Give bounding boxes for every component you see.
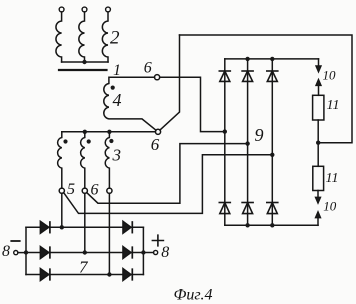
wire top rail net A xyxy=(180,35,353,143)
transformer T2 winding C with terminal xyxy=(102,7,110,62)
svg-text:6: 6 xyxy=(144,60,152,77)
junction rail 1 phase xyxy=(60,225,64,229)
svg-text:9: 9 xyxy=(255,125,264,145)
diode VD5 bottom col2 xyxy=(242,203,253,214)
svg-text:10: 10 xyxy=(323,199,337,214)
diode VD6 bottom col3 xyxy=(267,203,278,214)
diode VD4 bottom col1 xyxy=(219,203,230,214)
diode VD1 top col1 xyxy=(219,71,230,81)
diode VD11 rail2 right xyxy=(123,246,132,258)
svg-text:1: 1 xyxy=(113,62,121,79)
diode VD7 rail1 left xyxy=(40,221,50,233)
svg-text:2: 2 xyxy=(110,28,120,49)
wire T2 star rail xyxy=(62,61,108,63)
svg-text:8: 8 xyxy=(161,244,169,261)
junction top rail col3 xyxy=(270,57,274,61)
junction column 2 phase tap xyxy=(245,141,249,145)
junction left bus xyxy=(24,250,28,254)
wire column 3 xyxy=(271,59,273,225)
transformer T2 winding A with terminal xyxy=(56,7,64,62)
wire column 2 xyxy=(247,59,249,225)
svg-text:6: 6 xyxy=(151,135,160,154)
diode VD10 rail1 right xyxy=(123,221,132,233)
junction right bus xyxy=(141,250,145,254)
bridge 9 top rail xyxy=(225,58,319,60)
transformer T3 winding b xyxy=(81,132,85,188)
terminal minus with wire xyxy=(11,241,26,255)
polarity dot T3 a xyxy=(63,139,67,143)
terminal 6 lower xyxy=(155,129,160,134)
junction column 1 phase tap xyxy=(223,129,227,133)
svg-text:3: 3 xyxy=(112,146,122,165)
polarity dot T3 c xyxy=(109,139,113,143)
spark gap 10 upper xyxy=(316,59,322,95)
bridge 7 rail 3 xyxy=(26,274,143,276)
wire terminal c drop to bridge 7 rail 3 xyxy=(108,193,110,274)
transformer T3 winding c xyxy=(105,132,109,188)
svg-text:10: 10 xyxy=(323,67,337,82)
bridge 7 left bus xyxy=(25,227,27,274)
junction top rail col2 xyxy=(245,57,249,61)
svg-text:7: 7 xyxy=(79,257,89,276)
terminal 6 of T3 xyxy=(82,188,87,193)
junction T3 rail b xyxy=(83,130,87,134)
transformer core of T1 xyxy=(59,69,107,71)
transformer T2 winding B with terminal xyxy=(79,7,87,62)
resistor 11 upper xyxy=(313,95,324,120)
wire terminal 6 drop to bridge 7 rail 2 xyxy=(84,193,86,252)
bridge 7 rail 2 xyxy=(26,252,143,254)
terminal 5 xyxy=(59,188,64,193)
wire column 1 xyxy=(224,59,226,225)
junction bottom rail col2 xyxy=(245,223,249,227)
terminal 6 upper xyxy=(155,75,160,80)
bridge 7 rail 1 xyxy=(26,226,143,228)
junction T2 neutral xyxy=(82,60,86,64)
svg-text:6: 6 xyxy=(91,182,99,199)
spark gap 10 lower xyxy=(315,191,321,226)
transformer T3 winding a xyxy=(58,132,62,188)
svg-text:11: 11 xyxy=(327,98,340,113)
diode VD8 rail2 left xyxy=(40,246,50,258)
polarity dot T3 b xyxy=(87,139,91,143)
wire resistor to mid junction xyxy=(317,120,319,166)
junction mid divider xyxy=(316,141,320,145)
svg-text:Фиг.4: Фиг.4 xyxy=(174,286,213,303)
wire terminal 5 to bridge 9 column 3 xyxy=(64,155,273,214)
terminal T3 c xyxy=(107,188,112,193)
polarity dot winding 4 xyxy=(111,86,115,90)
transformer T3 star rail xyxy=(62,131,156,133)
wire terminal 5 drop to bridge 7 rail 1 xyxy=(61,193,63,227)
svg-text:4: 4 xyxy=(113,90,122,110)
junction T3 rail c xyxy=(107,130,111,134)
bridge 9 bottom rail xyxy=(225,224,318,226)
svg-text:11: 11 xyxy=(326,171,339,186)
wire node 6 to bridge column 1 xyxy=(160,77,225,131)
junction bottom rail col3 xyxy=(270,223,274,227)
wire net A drop to terminal 6 lower xyxy=(160,35,180,130)
diode VD9 rail3 left xyxy=(40,268,50,280)
svg-text:8: 8 xyxy=(2,243,10,260)
winding 4 xyxy=(104,77,156,130)
bridge 7 right bus xyxy=(142,227,144,274)
resistor 11 lower xyxy=(313,166,324,190)
diode VD2 top col2 xyxy=(242,71,253,81)
svg-text:5: 5 xyxy=(67,181,75,198)
junction column 3 phase tap xyxy=(270,153,274,157)
wire terminal 6 to bridge 9 column 2 xyxy=(87,144,248,204)
diode VD12 rail3 right xyxy=(123,268,132,280)
terminal plus with wire xyxy=(143,235,163,254)
junction rail 2 phase xyxy=(83,250,87,254)
diode VD3 top col3 xyxy=(267,71,278,81)
junction rail 3 phase xyxy=(107,272,111,276)
